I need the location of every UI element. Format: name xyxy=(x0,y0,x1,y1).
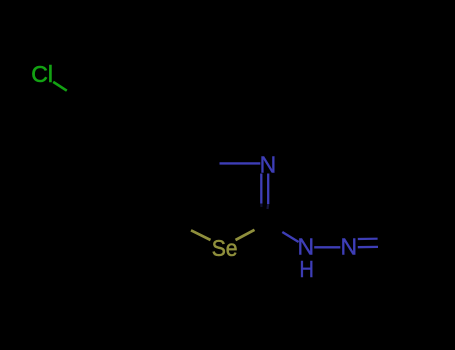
bond C4-N3 (blue) xyxy=(220,162,261,164)
svg-text:N: N xyxy=(340,233,357,259)
svg-text:H: H xyxy=(299,256,314,282)
svg-text:Cl: Cl xyxy=(31,61,53,87)
bond C2-N(H) (blue half) xyxy=(282,232,298,242)
bond C1'-C4 (phenyl to selenazole, near-black) xyxy=(166,140,220,163)
benzene ring (carbon bonds, near-black on black) xyxy=(80,77,166,163)
bond Se-C2 (olive half) xyxy=(236,230,255,240)
bond N-N (blue) xyxy=(314,246,340,248)
carbon half of Cl bond (near-black) xyxy=(67,91,81,100)
bond Cl-C (green half) xyxy=(53,82,67,91)
bond Se-C5 (olive half) xyxy=(191,230,211,240)
double bond N=C (blue halves) xyxy=(358,238,378,241)
carbon stubs near C2 and C5 (near-black) xyxy=(266,204,269,210)
double bond N3=C2 (blue halves) xyxy=(260,174,262,204)
svg-text:Se: Se xyxy=(212,235,238,261)
